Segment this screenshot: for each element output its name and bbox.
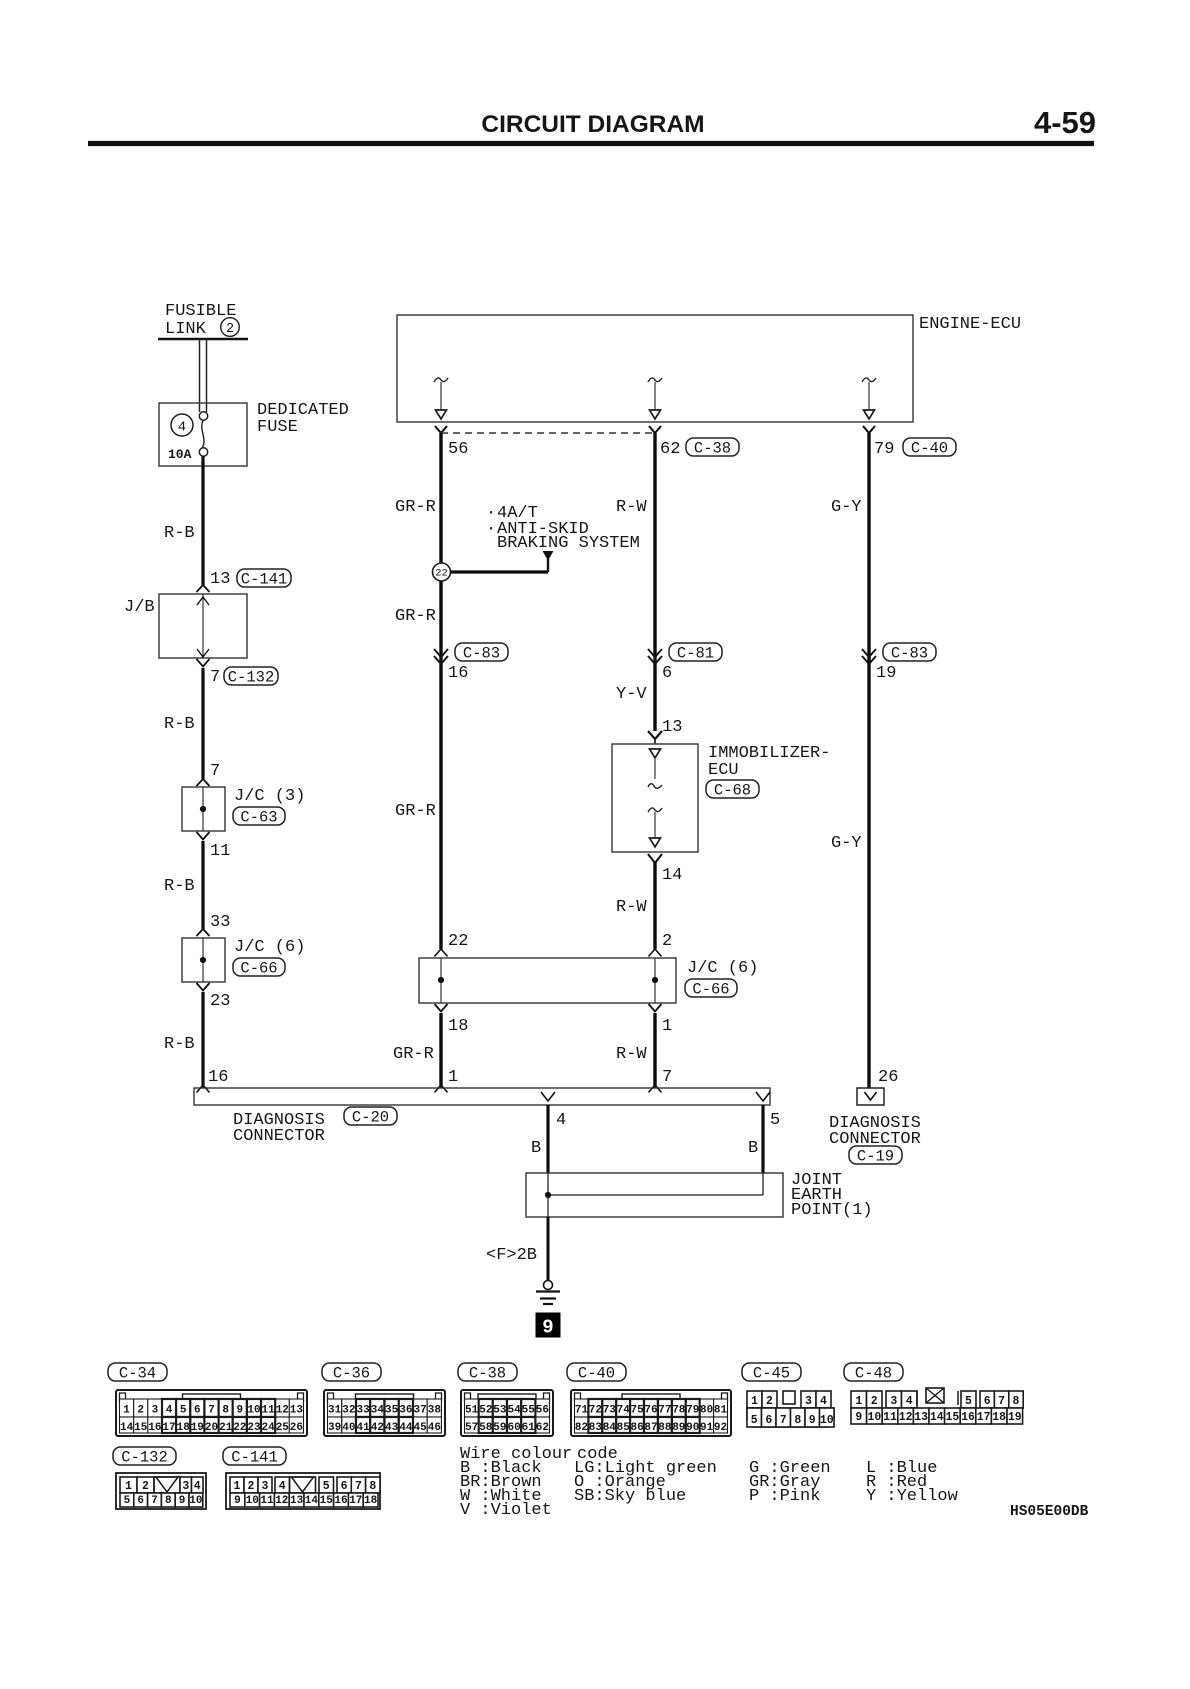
svg-text:85: 85 — [617, 1422, 631, 1434]
svg-text:89: 89 — [672, 1422, 685, 1434]
connector C-48 label — [844, 1363, 903, 1383]
label J/C(6) wide — [687, 959, 758, 978]
svg-text:7: 7 — [998, 1395, 1005, 1408]
svg-text:16: 16 — [148, 1422, 161, 1434]
page title CIRCUIT DIAGRAM — [481, 111, 704, 138]
colour code column 1 — [460, 1459, 552, 1520]
svg-text:82: 82 — [575, 1422, 588, 1434]
svg-text:9: 9 — [234, 1495, 241, 1507]
svg-text:6: 6 — [137, 1495, 144, 1507]
svg-text:75: 75 — [630, 1405, 644, 1417]
svg-text:16: 16 — [448, 664, 468, 683]
svg-text:3: 3 — [890, 1395, 897, 1408]
pin 2 into J/C(6) wide — [649, 932, 673, 957]
label R-W 2 — [616, 898, 647, 917]
svg-text:43: 43 — [385, 1422, 399, 1434]
wire B from pin 5 — [761, 1105, 764, 1173]
svg-text:R-B: R-B — [164, 877, 195, 896]
svg-text:81: 81 — [714, 1405, 728, 1417]
svg-text:6: 6 — [765, 1414, 772, 1427]
wire R-W immobilizer to J/C(6) — [653, 862, 656, 949]
svg-text:1: 1 — [123, 1405, 130, 1417]
connector C-45 label — [742, 1363, 801, 1383]
svg-text:92: 92 — [714, 1422, 727, 1434]
svg-text:7: 7 — [210, 762, 220, 781]
pin 26 into diagnosis C-19 — [878, 1068, 898, 1087]
svg-text:BRAKING SYSTEM: BRAKING SYSTEM — [497, 534, 640, 553]
svg-text:J/C (3): J/C (3) — [234, 787, 305, 806]
pin 7 into diagnosis — [649, 1068, 673, 1093]
svg-text:83: 83 — [589, 1422, 603, 1434]
fusible link bus bar — [158, 338, 248, 341]
svg-text:5: 5 — [770, 1111, 780, 1130]
ground symbol — [536, 1281, 560, 1305]
label GR-R 2 — [395, 607, 436, 626]
svg-text:16: 16 — [208, 1068, 228, 1087]
ECU pin 79 connector — [863, 426, 875, 433]
svg-text:C-45: C-45 — [753, 1365, 790, 1383]
pin label 62 C-38 — [660, 438, 739, 459]
svg-text:86: 86 — [630, 1422, 643, 1434]
label R-W 1 — [616, 498, 647, 517]
svg-text:38: 38 — [428, 1405, 442, 1417]
svg-text:51: 51 — [465, 1405, 479, 1417]
immobilizer ECU box C-68 — [612, 744, 698, 852]
C-20 pin 4 terminal — [541, 1092, 555, 1101]
svg-text:17: 17 — [162, 1422, 175, 1434]
svg-text:9: 9 — [542, 1317, 553, 1339]
svg-text:10: 10 — [820, 1414, 834, 1427]
svg-text:11: 11 — [260, 1495, 274, 1507]
svg-text:10: 10 — [246, 1495, 259, 1507]
svg-text:11: 11 — [261, 1405, 275, 1417]
svg-text:C-40: C-40 — [911, 440, 948, 458]
svg-text:20: 20 — [205, 1422, 218, 1434]
svg-text:GR-R: GR-R — [395, 802, 436, 821]
svg-text:15: 15 — [134, 1422, 148, 1434]
pin 18 under J/C(6) wide — [435, 1004, 469, 1036]
note 4A/T anti-skid — [486, 504, 640, 553]
svg-text:40: 40 — [342, 1422, 355, 1434]
svg-text:24: 24 — [261, 1422, 275, 1434]
svg-text:19: 19 — [1008, 1411, 1022, 1424]
svg-text:Y-V: Y-V — [616, 685, 647, 704]
wire GR-R below node 22 — [439, 581, 442, 949]
svg-text:78: 78 — [672, 1405, 686, 1417]
pin 19 below C-83 right — [876, 664, 896, 683]
svg-text:8: 8 — [165, 1495, 172, 1507]
svg-text:2: 2 — [662, 932, 672, 951]
connector C-132 pin table — [116, 1473, 206, 1509]
svg-text:21: 21 — [219, 1422, 233, 1434]
svg-text:90: 90 — [686, 1422, 699, 1434]
joint earth point box — [526, 1173, 783, 1217]
svg-text:C-83: C-83 — [463, 645, 500, 663]
wire branch to node 22 — [441, 570, 548, 573]
svg-text:C-81: C-81 — [677, 645, 714, 663]
svg-text:6: 6 — [194, 1405, 201, 1417]
svg-text:5: 5 — [323, 1480, 330, 1493]
pin 1 under J/C(6) wide — [649, 1004, 673, 1036]
pin label 5 — [770, 1111, 780, 1130]
colour code column 2 — [574, 1459, 717, 1506]
capsule C-20 — [344, 1107, 397, 1127]
svg-text:4: 4 — [166, 1405, 173, 1417]
svg-text:C-68: C-68 — [714, 782, 751, 800]
svg-text:76: 76 — [644, 1405, 657, 1417]
svg-text:ENGINE-ECU: ENGINE-ECU — [919, 315, 1021, 334]
connector C-40 label — [567, 1363, 626, 1383]
svg-text:44: 44 — [399, 1422, 413, 1434]
svg-text:C-141: C-141 — [241, 571, 288, 589]
svg-text:72: 72 — [589, 1405, 602, 1417]
label R-B 2 — [164, 715, 195, 734]
connector C-36 pin table — [324, 1390, 445, 1436]
connector C-38 pin table — [461, 1390, 553, 1436]
svg-text:13: 13 — [210, 570, 230, 589]
svg-text:79: 79 — [686, 1405, 699, 1417]
svg-text:36: 36 — [399, 1405, 412, 1417]
svg-text:6: 6 — [341, 1480, 348, 1493]
ECU pin 56 connector — [435, 426, 447, 433]
svg-text:62: 62 — [536, 1422, 549, 1434]
svg-text:R-W: R-W — [616, 1045, 647, 1064]
svg-text:15: 15 — [945, 1411, 959, 1424]
label G-Y 1 — [831, 498, 862, 517]
svg-text:22: 22 — [448, 932, 468, 951]
connector C-48 pin table — [851, 1388, 1023, 1424]
svg-text:C-19: C-19 — [857, 1148, 894, 1166]
svg-text:1: 1 — [751, 1395, 758, 1408]
svg-text:18: 18 — [177, 1422, 191, 1434]
svg-text:7: 7 — [355, 1480, 362, 1493]
svg-text:10: 10 — [247, 1405, 260, 1417]
svg-text:2: 2 — [248, 1480, 255, 1493]
svg-text:2: 2 — [766, 1395, 773, 1408]
svg-text:1: 1 — [448, 1068, 458, 1087]
svg-text:C-66: C-66 — [692, 981, 729, 999]
svg-text:31: 31 — [328, 1405, 342, 1417]
label R-B 3 — [164, 877, 195, 896]
pin 7 connector C-132 — [197, 659, 279, 687]
capsule C-66 — [233, 958, 285, 978]
svg-text:18: 18 — [992, 1411, 1006, 1424]
svg-text:1: 1 — [125, 1480, 132, 1493]
inline connector C-83 right — [862, 643, 936, 664]
svg-text:10: 10 — [867, 1411, 881, 1424]
svg-text:62: 62 — [660, 440, 680, 459]
svg-text:CONNECTOR: CONNECTOR — [233, 1127, 325, 1146]
svg-text:14: 14 — [305, 1495, 319, 1507]
svg-text:33: 33 — [356, 1405, 370, 1417]
svg-text:R-W: R-W — [616, 898, 647, 917]
dashed wire 56 to 62 — [441, 432, 655, 434]
label J/C(6) — [234, 938, 305, 957]
svg-text:R-W: R-W — [616, 498, 647, 517]
svg-text:45: 45 — [413, 1422, 427, 1434]
svg-text:12: 12 — [275, 1495, 288, 1507]
svg-text:V :Violet: V :Violet — [460, 1501, 552, 1520]
label DIAGNOSIS CONNECTOR C-20 — [233, 1111, 325, 1146]
junction block J/B box — [159, 594, 247, 658]
svg-text:74: 74 — [617, 1405, 631, 1417]
svg-text:C-48: C-48 — [855, 1365, 892, 1383]
svg-text:13: 13 — [290, 1495, 304, 1507]
pin 14 under immobilizer — [648, 854, 682, 885]
joint connector J/C(6) wide box C-66 — [419, 958, 676, 1003]
joint connector J/C(6) C-66 box — [182, 938, 225, 982]
svg-text:C-83: C-83 — [891, 645, 928, 663]
pin 6 below C-81 — [662, 664, 672, 683]
diagnosis connector C-19 terminal box — [857, 1088, 884, 1105]
label J/B — [124, 598, 155, 617]
label DEDICATED FUSE — [257, 401, 349, 437]
svg-text:7: 7 — [151, 1495, 158, 1507]
wire GR-R from ECU 56 — [439, 433, 442, 572]
label G-Y 2 — [831, 834, 862, 853]
svg-text:HS05E00DB: HS05E00DB — [1010, 1504, 1089, 1520]
svg-text:58: 58 — [479, 1422, 493, 1434]
connector C-141 label — [223, 1447, 286, 1467]
svg-text:9: 9 — [179, 1495, 186, 1507]
pin 23 under J/C(6) — [197, 983, 231, 1011]
svg-text:4: 4 — [194, 1480, 201, 1493]
svg-text:C-20: C-20 — [352, 1109, 389, 1127]
svg-text:7: 7 — [208, 1405, 215, 1417]
joint connector J/C(3) C-63 box — [182, 787, 225, 831]
svg-text:4: 4 — [556, 1111, 566, 1130]
svg-text:4: 4 — [820, 1395, 827, 1408]
label DIAGNOSIS CONNECTOR C-19 — [829, 1114, 921, 1149]
svg-text:5: 5 — [124, 1495, 131, 1507]
svg-text:1: 1 — [234, 1480, 241, 1493]
svg-text:CIRCUIT DIAGRAM: CIRCUIT DIAGRAM — [481, 111, 704, 138]
svg-text:91: 91 — [700, 1422, 714, 1434]
svg-text:7: 7 — [662, 1068, 672, 1087]
svg-text:GR-R: GR-R — [393, 1045, 434, 1064]
node 22 splice — [433, 563, 451, 581]
pin 1 into diagnosis — [435, 1068, 459, 1093]
svg-text:55: 55 — [522, 1405, 536, 1417]
svg-text:46: 46 — [428, 1422, 441, 1434]
svg-text:2: 2 — [226, 322, 234, 337]
svg-text:2: 2 — [142, 1480, 149, 1493]
svg-text:16: 16 — [961, 1411, 975, 1424]
svg-text:13: 13 — [662, 718, 682, 737]
svg-text:88: 88 — [658, 1422, 672, 1434]
svg-text:23: 23 — [247, 1422, 261, 1434]
colour code column 3 — [749, 1459, 831, 1506]
capsule C-19 — [849, 1146, 902, 1166]
wire R-B fuse to C-141 — [201, 456, 204, 585]
svg-text:LINK: LINK — [165, 320, 207, 339]
svg-text:R-B: R-B — [164, 1035, 195, 1054]
wire R-B to J/C(6) — [201, 841, 204, 929]
label JOINT EARTH POINT(1) — [791, 1171, 873, 1220]
svg-text:G-Y: G-Y — [831, 834, 862, 853]
svg-text:8: 8 — [222, 1405, 229, 1417]
connector C-38 label — [458, 1363, 517, 1383]
svg-text:G-Y: G-Y — [831, 498, 862, 517]
label R-W 3 — [616, 1045, 647, 1064]
label R-B 4 — [164, 1035, 195, 1054]
svg-text:B: B — [531, 1139, 541, 1158]
svg-text:11: 11 — [883, 1411, 897, 1424]
wire to ground — [547, 1217, 550, 1281]
svg-text:39: 39 — [328, 1422, 341, 1434]
svg-text:4: 4 — [279, 1480, 286, 1493]
svg-text:3: 3 — [262, 1480, 269, 1493]
capsule C-63 — [233, 807, 285, 827]
svg-text:4: 4 — [178, 420, 186, 436]
svg-text:56: 56 — [448, 440, 468, 459]
svg-text:32: 32 — [342, 1405, 355, 1417]
label (F)2B — [486, 1246, 537, 1265]
svg-text:6: 6 — [662, 664, 672, 683]
svg-text:6: 6 — [984, 1395, 991, 1408]
svg-text:17: 17 — [349, 1495, 362, 1507]
wire R-W from ECU 62 — [653, 433, 656, 731]
pin 13 into immobilizer — [648, 718, 682, 739]
svg-text:7: 7 — [780, 1414, 787, 1427]
page number 4-59 — [1034, 105, 1096, 140]
pin label 4 — [556, 1111, 566, 1130]
svg-text:35: 35 — [385, 1405, 399, 1417]
svg-text:25: 25 — [276, 1422, 290, 1434]
svg-text:14: 14 — [120, 1422, 134, 1434]
svg-text:8: 8 — [369, 1480, 376, 1493]
svg-text:23: 23 — [210, 992, 230, 1011]
wire GR-R to diagnosis pin 1 — [439, 1013, 442, 1088]
branch arrow to anti-skid note — [543, 551, 554, 572]
wire G-Y from ECU 79 — [867, 433, 870, 1088]
svg-text:84: 84 — [603, 1422, 617, 1434]
label GR-R 3 — [395, 802, 436, 821]
ECU internal output 56 — [434, 378, 448, 419]
svg-text:10: 10 — [189, 1495, 202, 1507]
svg-text:13: 13 — [290, 1405, 304, 1417]
svg-text:60: 60 — [507, 1422, 520, 1434]
connector C-141 pin table — [226, 1473, 380, 1509]
svg-text:73: 73 — [603, 1405, 617, 1417]
svg-text:42: 42 — [371, 1422, 384, 1434]
svg-text:R-B: R-B — [164, 524, 195, 543]
connector C-40 pin table — [571, 1390, 731, 1436]
label GR-R 4 — [393, 1045, 434, 1064]
svg-text:2: 2 — [871, 1395, 878, 1408]
svg-text:9: 9 — [236, 1405, 243, 1417]
svg-text:17: 17 — [977, 1411, 991, 1424]
label J/C(3) — [234, 787, 305, 806]
svg-text:7: 7 — [210, 668, 220, 687]
svg-text:GR-R: GR-R — [395, 607, 436, 626]
svg-text:34: 34 — [371, 1405, 385, 1417]
svg-text:3: 3 — [805, 1395, 812, 1408]
svg-text:16: 16 — [334, 1495, 347, 1507]
dedicated fuse box F4 10A — [159, 403, 247, 466]
chevron into J/B — [197, 585, 210, 592]
svg-text:C-132: C-132 — [228, 669, 275, 687]
ground reference 9 — [536, 1313, 560, 1339]
wire colour code heading — [460, 1445, 618, 1464]
inline connector C-81 — [648, 643, 722, 664]
fusible link (2) label — [165, 302, 239, 339]
svg-text:C-34: C-34 — [119, 1365, 156, 1383]
ECU internal output 79 — [862, 378, 876, 419]
svg-text:C-141: C-141 — [231, 1449, 278, 1467]
svg-text:C-38: C-38 — [694, 440, 731, 458]
svg-text:4-59: 4-59 — [1034, 105, 1096, 140]
inline connector C-83 left — [434, 643, 508, 664]
svg-text:33: 33 — [210, 913, 230, 932]
capsule C-66 wide — [685, 979, 737, 999]
svg-text:R-B: R-B — [164, 715, 195, 734]
C-20 pin 5 terminal — [756, 1092, 770, 1101]
label R-B 1 — [164, 524, 195, 543]
svg-text:SB:Sky blue: SB:Sky blue — [574, 1487, 686, 1506]
drawing number HS05E00DB — [1010, 1504, 1089, 1520]
pin label 79 C-40 — [874, 438, 956, 459]
svg-text:2: 2 — [137, 1405, 144, 1417]
svg-text:18: 18 — [448, 1017, 468, 1036]
svg-text:5: 5 — [751, 1414, 758, 1427]
wire R-B to diagnosis connector — [201, 992, 204, 1088]
svg-text:19: 19 — [876, 664, 896, 683]
pin 13 connector C-141 — [210, 569, 291, 589]
svg-text:8: 8 — [794, 1414, 801, 1427]
joint earth splice dot — [545, 1192, 551, 1198]
header rule — [88, 141, 1094, 146]
label ENGINE-ECU — [919, 315, 1021, 334]
pin 16 into diagnosis connector — [197, 1068, 229, 1093]
pin 16 below C-83 — [448, 664, 468, 683]
svg-text:26: 26 — [290, 1422, 303, 1434]
svg-text:12: 12 — [276, 1405, 289, 1417]
connector C-36 label — [322, 1363, 381, 1383]
svg-text:57: 57 — [465, 1422, 478, 1434]
svg-text:52: 52 — [479, 1405, 492, 1417]
svg-text:1: 1 — [855, 1395, 862, 1408]
svg-text:26: 26 — [878, 1068, 898, 1087]
pin 11 under J/C(3) — [197, 832, 231, 861]
capsule C-68 — [706, 780, 759, 800]
engine ECU box — [397, 315, 913, 422]
svg-text:19: 19 — [191, 1422, 204, 1434]
svg-text:3: 3 — [182, 1480, 189, 1493]
svg-text:8: 8 — [1013, 1395, 1020, 1408]
pin 7 into J/C(3) — [197, 762, 221, 786]
svg-text:18: 18 — [364, 1495, 378, 1507]
svg-text:41: 41 — [356, 1422, 370, 1434]
label IMMOBILIZER-ECU — [708, 744, 830, 780]
svg-text:B: B — [748, 1139, 758, 1158]
svg-text:10A: 10A — [168, 447, 192, 462]
ECU pin 62 connector — [649, 426, 661, 433]
svg-text:9: 9 — [809, 1414, 816, 1427]
diagnosis connector C-20 box — [194, 1088, 770, 1105]
svg-text:54: 54 — [507, 1405, 521, 1417]
svg-text:<F>2B: <F>2B — [486, 1246, 537, 1265]
wire R-B to J/C(3) — [201, 668, 204, 779]
svg-text:3: 3 — [152, 1405, 159, 1417]
svg-text:53: 53 — [493, 1405, 507, 1417]
svg-text:5: 5 — [965, 1395, 972, 1408]
svg-text:61: 61 — [522, 1422, 536, 1434]
svg-text:77: 77 — [658, 1405, 671, 1417]
svg-text:FUSE: FUSE — [257, 418, 298, 437]
colour code column 4 — [866, 1459, 959, 1506]
wire stub into immobilizer — [654, 739, 656, 744]
